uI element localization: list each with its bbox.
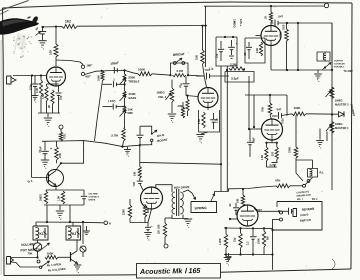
node tone top (123, 69, 125, 71)
wire input (13, 75, 47, 77)
arrow out of spring (211, 194, 215, 202)
chain 10K 047 (139, 162, 141, 166)
resistor 2.7M bright (173, 74, 187, 77)
svg-text:FOOT-: FOOT- (300, 213, 309, 218)
switch contact circle (37, 260, 40, 263)
resistor 21K V2 plate (201, 25, 203, 27)
input jack (7, 76, 12, 84)
resistor 100K base (45, 256, 58, 260)
footswitch box (273, 202, 323, 231)
V6 grid stub (256, 35, 262, 37)
resistor 27K vol tap (181, 107, 184, 118)
resistor 1K2 (62, 24, 77, 28)
ground input cap (32, 95, 39, 97)
ink smudge speckles (18, 38, 20, 40)
svg-text:1MEG: 1MEG (40, 194, 43, 201)
switch output (323, 63, 332, 70)
svg-text:1.5K: 1.5K (42, 94, 45, 99)
capacitor gain boost (139, 126, 141, 135)
wire V5 grid (230, 218, 237, 220)
border frame top (3, 2, 353, 8)
ground y70 (317, 70, 319, 73)
svg-text:47K: 47K (275, 179, 281, 183)
svg-text:21K: 21K (195, 55, 199, 60)
wire fet bottom bus (44, 204, 84, 206)
svg-text:33μ: 33μ (234, 237, 237, 242)
bright switch contacts (173, 62, 176, 65)
resistor V2 grid leak (187, 96, 189, 99)
relay K1 (35, 222, 37, 226)
terminal H (104, 221, 108, 225)
tube V1 (47, 67, 66, 86)
svg-text:2.7M: 2.7M (177, 69, 184, 73)
resistor VOL leg (59, 132, 62, 141)
switch gain boost (140, 126, 152, 133)
node rail-cap (42, 26, 44, 28)
capacitor 4uF rail (42, 27, 44, 31)
wire bank top (224, 227, 273, 230)
svg-text:(1K 1W): (1K 1W) (158, 225, 161, 234)
svg-text:2.2M: 2.2M (230, 63, 237, 67)
svg-text:7025: 7025 (281, 118, 285, 124)
border frame right (351, 3, 352, 269)
svg-text:1K2: 1K2 (65, 20, 71, 24)
resistor 2K cathode (51, 90, 54, 104)
capacitor fet out (83, 190, 85, 196)
svg-text:1.5K: 1.5K (198, 119, 201, 124)
ground V1 bus (47, 113, 49, 117)
resistor 1K 1W (164, 218, 166, 223)
svg-text:680: 680 (147, 208, 150, 213)
capacitor 100pF input (34, 76, 36, 84)
capacitor foot (288, 208, 290, 215)
capacitor 2.2 divider (272, 162, 278, 164)
svg-text:1.00K: 1.00K (219, 238, 222, 245)
wire vertical feed 207 (205, 6, 207, 67)
ground rail cap (38, 40, 46, 42)
pot master1 (330, 122, 334, 134)
capacitor 20uF V2 grid (185, 77, 187, 84)
wire long v227 (226, 66, 228, 191)
svg-text:K2: K2 (72, 232, 76, 236)
tube V3 (262, 119, 283, 140)
wire v249 (248, 76, 250, 129)
wire V7 plate (156, 185, 172, 192)
ground xfmr (172, 215, 188, 219)
svg-text:’047: ’047 (276, 108, 282, 112)
svg-text:10K: 10K (134, 171, 137, 176)
ground fet (59, 205, 61, 210)
svg-text:MASTER 1: MASTER 1 (335, 126, 349, 130)
svg-text:70K: 70K (28, 252, 33, 256)
svg-text:R.L: R.L (320, 171, 325, 175)
diode standby (339, 112, 345, 117)
wire y23 (271, 22, 274, 24)
resistor 330K feedback (295, 115, 297, 147)
svg-text:VOL: VOL (63, 133, 67, 139)
bright switch box (171, 63, 189, 75)
V2 cathode net (207, 108, 209, 111)
switch mix (303, 184, 306, 187)
wire reverb feed (139, 145, 141, 162)
svg-text:70K: 70K (261, 107, 265, 112)
svg-text:100K: 100K (47, 252, 55, 256)
pot 1MEG VOL1 (171, 80, 173, 89)
resistor 27K boost (56, 141, 58, 146)
border frame left (3, 8, 5, 276)
wire 27K bypass loop (61, 141, 84, 163)
wire v254 (253, 95, 255, 127)
ground V2 (201, 132, 208, 134)
svg-text:270K: 270K (279, 32, 283, 38)
wire reverb return (229, 187, 263, 192)
capacitor 10uF boost (44, 142, 46, 151)
svg-text:+: + (151, 224, 153, 228)
ground stub master (319, 129, 321, 140)
wire gate (31, 76, 33, 178)
svg-text:220K: 220K (123, 209, 126, 215)
wire plate node (55, 57, 57, 66)
svg-text:1MEG: 1MEG (335, 99, 343, 103)
resistor 1.5K divider (265, 143, 267, 147)
svg-text:27K: 27K (58, 153, 62, 158)
pot volume switch (37, 240, 39, 243)
ground v7 (144, 232, 152, 234)
arrow into spring (183, 190, 192, 193)
capacitor .1 treble (103, 83, 113, 85)
svg-text:7025: 7025 (282, 24, 286, 30)
relay coil RL (308, 169, 318, 178)
resistor 100K out (292, 112, 306, 116)
scan shadow left edge (0, 40, 2, 275)
svg-text:3.3K: 3.3K (36, 88, 39, 93)
relay coil box top right (317, 52, 330, 61)
svg-text:MID: MID (128, 111, 133, 115)
resistor 1.5K fet (61, 191, 64, 204)
pot mid arrow (120, 110, 127, 117)
wire after switch (85, 70, 125, 74)
transistor Tr1 (47, 170, 64, 187)
resistor 2.7M tone bottom (122, 128, 126, 141)
svg-text:2.7M: 2.7M (111, 133, 118, 137)
resistor 10K V1 plate (55, 27, 57, 44)
relay K2 (72, 222, 74, 226)
contacts foot (280, 211, 283, 214)
ground boost bus (127, 147, 129, 149)
svg-text:3.3μF: 3.3μF (231, 77, 239, 81)
V6 cathode down (270, 46, 272, 71)
transformer reverb (176, 189, 178, 216)
svg-text:Acoustic Mk Ⅰ 165: Acoustic Mk Ⅰ 165 (139, 266, 202, 276)
svg-text:2K: 2K (48, 105, 51, 108)
svg-text:100K: 100K (97, 75, 100, 81)
svg-text:VOLUME: VOLUME (21, 242, 35, 247)
wire cathode bus (38, 112, 60, 114)
capacitor 150pF (113, 67, 115, 74)
svg-text:25μ: 25μ (60, 95, 63, 100)
wire v287 plate out (286, 95, 288, 116)
svg-text:ON-TIME: ON-TIME (89, 194, 99, 196)
svg-text:1MEG: 1MEG (233, 19, 237, 28)
svg-text:1MF: 1MF (87, 64, 93, 68)
resistor 100K bank (263, 228, 265, 231)
capacitor rev (235, 203, 237, 207)
diode K2 (82, 222, 84, 244)
svg-text:H: H (109, 222, 111, 226)
wire relay feeds (46, 205, 48, 222)
svg-text:1M: 1M (182, 106, 185, 109)
svg-text:68pF: 68pF (253, 137, 256, 143)
pot master2 (330, 87, 334, 99)
ground 10uF (41, 159, 49, 161)
svg-text:10K: 10K (237, 198, 240, 203)
svg-text:1.1μ: 1.1μ (209, 68, 214, 71)
resistor 100K slope (125, 70, 139, 74)
capacitor cathode bypass (58, 86, 60, 92)
spring box (191, 202, 217, 213)
wire jack to pot (11, 257, 38, 259)
terminal reverb out (164, 244, 168, 248)
svg-text:970: 970 (272, 151, 275, 156)
border frame bottom left (4, 274, 137, 277)
resistor 47K (262, 186, 276, 187)
svg-text:CONTACT: CONTACT (89, 195, 100, 198)
ink blob (0, 18, 39, 34)
tube V7 reverb driver (141, 187, 163, 209)
svg-text:TO AMP: TO AMP (344, 70, 354, 73)
svg-text:(.047): (.047) (108, 99, 115, 103)
svg-text:1.5K: 1.5K (261, 155, 264, 160)
svg-text:SPRING: SPRING (194, 206, 207, 211)
wire bank bottom (224, 254, 273, 256)
resistor 33 bank (240, 228, 242, 233)
wire Q1 collector (76, 240, 78, 251)
border frame bottom right (221, 269, 352, 272)
resistor 100K grid leak (101, 71, 104, 81)
resistor 3.3K grid (40, 76, 42, 81)
svg-text:2.2K: 2.2K (256, 48, 259, 53)
svg-text:’047: ’047 (133, 181, 136, 186)
svg-text:1K: 1K (265, 16, 268, 19)
tube V6 (261, 26, 281, 46)
transistor Q1 (70, 252, 72, 262)
resistor 970 divider (276, 143, 278, 147)
wire v7 cathode bus (130, 222, 148, 224)
wire to vol1 (188, 74, 204, 77)
cap 68pF divider (249, 129, 251, 142)
svg-text:VOL.1: VOL.1 (158, 95, 167, 99)
wire v298 (297, 23, 299, 70)
scan noise (83, 149, 86, 152)
svg-text:TREBLE: TREBLE (128, 79, 139, 83)
svg-text:F.B.+: F.B.+ (239, 19, 243, 26)
svg-text:100K: 100K (138, 68, 146, 72)
supply box 2 (245, 38, 265, 63)
resistor 680 v7 (144, 204, 146, 205)
wire y70 (271, 69, 332, 71)
wire fet top bus (46, 189, 84, 191)
svg-text:2.2: 2.2 (246, 241, 249, 245)
terminal B+ top (324, 3, 328, 7)
svg-text:2.2μ: 2.2μ (216, 118, 219, 123)
resistor 220K v7 (129, 199, 131, 205)
wire V6 plate (270, 6, 272, 12)
wire jack sleeve (11, 262, 41, 267)
ground mini above title (228, 253, 230, 256)
jack foot (293, 209, 297, 217)
svg-text:K1: K1 (40, 232, 44, 236)
svg-text:RL 1: RL 1 (312, 197, 318, 201)
wire v332 down (331, 23, 333, 70)
wire boost bus (42, 141, 140, 147)
pot treble arrow (120, 78, 127, 85)
ground Q1 (77, 264, 79, 265)
svg-text:DRIVE: DRIVE (89, 199, 96, 201)
wire top B+ line (204, 5, 324, 7)
resistor 1M fet (45, 190, 47, 191)
svg-text:+: + (50, 147, 52, 151)
svg-text:330K: 330K (288, 147, 292, 153)
svg-text:.047: .047 (278, 15, 284, 19)
tube V5 (237, 205, 258, 226)
capacitor .047 bass (103, 106, 113, 108)
jack footswitch (7, 257, 11, 265)
svg-text:+: + (236, 42, 238, 46)
capacitor 2.2 bank (252, 228, 254, 236)
wire long v222 (220, 66, 222, 192)
switch RL lever (41, 261, 50, 267)
resistor 270K (286, 23, 288, 29)
resistor 1.00K bank (225, 228, 227, 234)
pen arc bottom right (332, 259, 335, 269)
resistor 10K rev return (242, 188, 244, 190)
resistor 1.5K (46, 84, 48, 86)
svg-text:OUTPUT: OUTPUT (334, 61, 344, 63)
resistor 70K V3 plate (269, 95, 271, 103)
svg-text:FOR MK.1: FOR MK.1 (334, 66, 345, 68)
page fold crease (0, 1, 29, 11)
switch input select (81, 65, 84, 68)
ground stray mid-left (86, 226, 88, 231)
wire master bus (331, 23, 333, 190)
svg-text:10K: 10K (49, 49, 53, 55)
svg-text:COUPLER: COUPLER (334, 63, 345, 65)
svg-text:MASTER 2: MASTER 2 (335, 102, 349, 106)
svg-text:1MEG: 1MEG (335, 122, 343, 126)
svg-text:BASS: BASS (129, 96, 137, 100)
ground bank (225, 255, 227, 257)
svg-text:NST: NST (86, 75, 92, 79)
wire V3 cathode top (266, 142, 276, 144)
wire V5 out (254, 209, 258, 212)
wire V3 top (245, 94, 287, 96)
node rail-10K (55, 26, 57, 28)
capacitor v7 bypass (147, 223, 149, 227)
pot bass arrow (120, 94, 127, 101)
title box (137, 264, 221, 279)
svg-text:100K: 100K (257, 238, 260, 244)
ground vol1 (171, 102, 173, 113)
wire V2 grid (186, 96, 198, 97)
wire relay bus (36, 221, 104, 224)
tube V2 (198, 88, 218, 108)
supply box 1 (216, 37, 237, 66)
svg-text:1.5K: 1.5K (58, 196, 61, 201)
terminal VOL (59, 125, 63, 129)
svg-text:100K: 100K (294, 106, 302, 110)
resistor 2.2M interstage (229, 67, 245, 70)
svg-text:25μ: 25μ (216, 53, 219, 58)
box 3.3uF interstage (225, 72, 254, 83)
wire RL up (312, 160, 314, 169)
wire foot down (272, 220, 274, 270)
wire B+ rail (41, 26, 62, 28)
wire divider bottom (266, 166, 276, 168)
